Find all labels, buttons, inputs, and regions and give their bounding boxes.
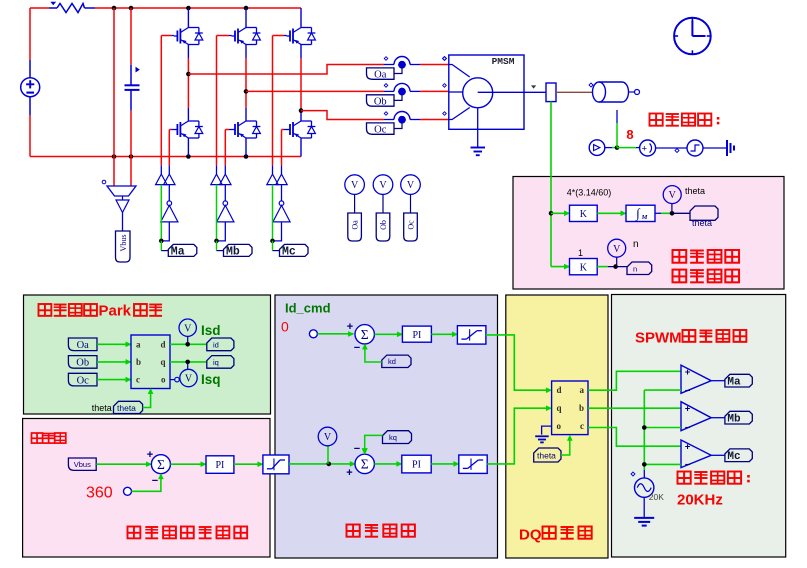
svg-text:kq: kq: [389, 433, 397, 442]
svg-text:Mb: Mb: [727, 414, 741, 426]
svg-text:V: V: [185, 374, 193, 385]
svg-text:o: o: [557, 421, 562, 431]
svg-text:n: n: [633, 265, 637, 274]
svg-text:DQ: DQ: [519, 527, 542, 544]
svg-text:4*(3.14/60): 4*(3.14/60): [567, 187, 612, 197]
svg-text:V: V: [324, 432, 332, 443]
svg-text:Mb: Mb: [226, 246, 240, 259]
svg-text:V: V: [184, 323, 192, 334]
svg-text:theta: theta: [692, 218, 712, 228]
svg-text:b: b: [136, 357, 141, 367]
svg-text:d: d: [557, 385, 562, 395]
svg-text:K: K: [580, 262, 588, 273]
svg-text:SPWM: SPWM: [635, 330, 682, 347]
svg-text:id: id: [213, 341, 219, 350]
svg-text:theta: theta: [537, 451, 556, 461]
svg-text:a: a: [580, 385, 585, 395]
svg-text:8: 8: [626, 127, 633, 142]
svg-text:PI: PI: [215, 460, 224, 471]
svg-text:−: −: [152, 475, 158, 487]
svg-text:c: c: [136, 375, 140, 385]
svg-text:−: −: [685, 460, 691, 471]
svg-text:Ma: Ma: [727, 377, 741, 389]
svg-text:n: n: [633, 239, 639, 250]
svg-text:Σ: Σ: [361, 327, 369, 342]
svg-text:Ob: Ob: [76, 358, 89, 369]
svg-text:Isq: Isq: [201, 372, 221, 387]
svg-text:Oa: Oa: [374, 69, 387, 80]
svg-text:−: −: [354, 443, 360, 455]
svg-text:−: −: [685, 385, 691, 396]
svg-text:Oa: Oa: [77, 340, 90, 351]
svg-text:K: K: [580, 209, 588, 220]
svg-text:+: +: [347, 321, 353, 333]
svg-text:Vbus: Vbus: [119, 235, 128, 252]
svg-text:Oc: Oc: [407, 220, 416, 230]
svg-text:kd: kd: [388, 357, 396, 366]
svg-text:b: b: [579, 403, 584, 413]
svg-text:Oa: Oa: [351, 220, 360, 230]
svg-text:Isd: Isd: [201, 323, 221, 338]
svg-text:20K: 20K: [649, 492, 664, 502]
svg-text:Ob: Ob: [374, 96, 387, 107]
svg-text:theta: theta: [117, 403, 136, 413]
svg-text:o: o: [161, 375, 166, 385]
svg-text:theta: theta: [685, 186, 705, 196]
svg-text:V: V: [669, 190, 677, 201]
svg-text:+: +: [642, 143, 648, 154]
svg-text:Vbus: Vbus: [74, 460, 91, 469]
svg-text:20KHz: 20KHz: [677, 492, 723, 509]
svg-text:Oc: Oc: [374, 124, 387, 135]
svg-text:a: a: [136, 339, 141, 349]
svg-text:−: −: [354, 342, 360, 354]
svg-text:Ob: Ob: [379, 220, 388, 230]
svg-text:Ma: Ma: [171, 246, 185, 259]
svg-text:+: +: [685, 367, 691, 378]
svg-text:PMSM: PMSM: [492, 56, 515, 67]
svg-text:q: q: [160, 357, 165, 367]
svg-text:+: +: [685, 442, 691, 453]
svg-text:+: +: [147, 449, 153, 461]
svg-text:PI: PI: [412, 460, 421, 471]
svg-text:Mc: Mc: [727, 451, 740, 463]
svg-text:Oc: Oc: [77, 375, 90, 386]
svg-text:V: V: [379, 180, 387, 191]
svg-text:Mc: Mc: [282, 246, 296, 259]
svg-text:theta: theta: [92, 403, 112, 413]
svg-text:V: V: [351, 180, 359, 191]
svg-text:q: q: [557, 403, 562, 413]
svg-text:+: +: [346, 467, 352, 479]
svg-text:Id_cmd: Id_cmd: [285, 301, 331, 316]
svg-text:−: −: [685, 423, 691, 434]
svg-text:PI: PI: [412, 330, 421, 341]
svg-text:iq: iq: [213, 358, 219, 367]
svg-text:V: V: [613, 244, 621, 255]
svg-text:d: d: [160, 339, 165, 349]
svg-text:Σ: Σ: [157, 457, 165, 472]
svg-text:0: 0: [281, 319, 289, 335]
svg-text:1: 1: [578, 248, 583, 258]
svg-text:Park: Park: [99, 302, 132, 319]
svg-text:360: 360: [86, 485, 113, 502]
svg-text:+: +: [685, 403, 691, 414]
svg-text:Σ: Σ: [361, 457, 369, 472]
svg-text:c: c: [580, 421, 584, 431]
svg-text:V: V: [407, 180, 415, 191]
svg-text:M: M: [641, 214, 648, 221]
